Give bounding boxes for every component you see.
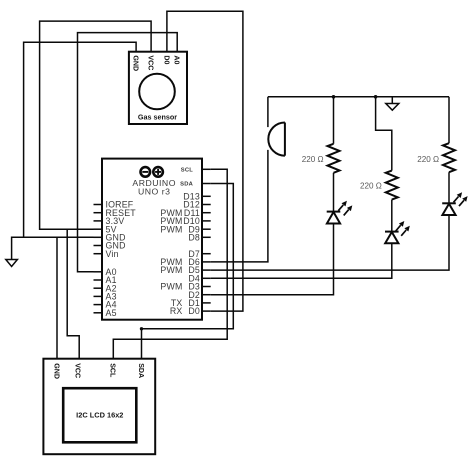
wire: LCD GND up to GND net bbox=[56, 237, 58, 358]
resistor R1 bbox=[328, 144, 340, 173]
resistor R3 bbox=[443, 143, 455, 172]
wire: ground bus bbox=[268, 96, 449, 98]
Arduino logo bbox=[141, 167, 163, 177]
svg-text:Vin: Vin bbox=[106, 249, 119, 259]
wire: Arduino SDA to LCD SDA bbox=[142, 184, 234, 359]
junction dot SDA bend bbox=[140, 327, 143, 330]
svg-text:A5: A5 bbox=[106, 308, 117, 318]
svg-text:RX: RX bbox=[170, 306, 183, 316]
gas sensor module bbox=[129, 52, 187, 124]
ground arrow symbol on bus bbox=[386, 97, 399, 110]
junction dot bus/R2 bbox=[374, 95, 378, 99]
wire: GND net from Arduino GND to ground symbol bbox=[12, 237, 94, 259]
buzzer PZ1 bbox=[268, 123, 285, 156]
wire: R2 to LED2 bbox=[391, 200, 393, 232]
wire: R1 to LED1 bbox=[333, 173, 335, 212]
wire: LED3 to Arduino D5 bbox=[211, 215, 449, 270]
svg-text:SDA: SDA bbox=[137, 363, 145, 378]
svg-text:Gas sensor: Gas sensor bbox=[138, 113, 177, 122]
resistor R2 bbox=[386, 171, 398, 200]
wire: LCD VCC up to 5V net bbox=[67, 229, 79, 359]
svg-text:SCL: SCL bbox=[181, 168, 193, 174]
svg-text:GND: GND bbox=[52, 363, 60, 379]
wire: bus drop to resistor R1 bbox=[333, 97, 335, 144]
svg-text:GND: GND bbox=[132, 55, 140, 71]
wire: bus right end down to resistor R3 bbox=[448, 97, 450, 143]
svg-text:PWM: PWM bbox=[160, 224, 182, 234]
svg-text:PWM: PWM bbox=[160, 265, 182, 275]
wire: LED1 to Arduino D2 bbox=[211, 224, 334, 295]
svg-text:D8: D8 bbox=[188, 232, 200, 242]
wire: bus jog down to resistor R2 bbox=[376, 97, 392, 171]
wire: Arduino SCL to LCD SCL bbox=[113, 169, 227, 358]
ground symbol GND1 bbox=[6, 260, 18, 267]
LED D3 (LED3) bbox=[442, 192, 467, 215]
junction dot bus/R1 bbox=[332, 95, 336, 99]
svg-text:I2C LCD 16x2: I2C LCD 16x2 bbox=[76, 410, 123, 419]
svg-text:D0: D0 bbox=[162, 55, 170, 64]
svg-text:D0: D0 bbox=[188, 306, 200, 316]
svg-text:SCL: SCL bbox=[109, 363, 117, 378]
svg-text:PWM: PWM bbox=[160, 282, 182, 292]
wire: gas sensor GND up-left-down to GND net bbox=[24, 42, 137, 237]
wire: Arduino D6 to buzzer bottom bbox=[211, 150, 268, 262]
svg-text:220 Ω: 220 Ω bbox=[302, 155, 324, 164]
svg-text:VCC: VCC bbox=[74, 363, 82, 378]
I2C LCD 16x2 module bbox=[43, 359, 155, 455]
Arduino UNO U1 body bbox=[102, 159, 202, 320]
LED D1 (LED1) bbox=[327, 201, 353, 224]
wire: buzzer top to ground bus bbox=[267, 97, 269, 127]
Arduino left pin labels bbox=[106, 200, 137, 318]
Arduino right pin stubs bbox=[202, 169, 211, 311]
LED D2 (LED2) bbox=[385, 221, 410, 243]
Arduino left pin stubs bbox=[94, 205, 103, 313]
wire: LED2 to Arduino D4 bbox=[211, 243, 392, 278]
svg-text:SDA: SDA bbox=[180, 182, 193, 188]
wire: gas sensor VCC up-left-down to Arduino 5V bbox=[40, 21, 152, 229]
svg-text:220 Ω: 220 Ω bbox=[360, 182, 382, 191]
svg-text:A0: A0 bbox=[173, 55, 181, 64]
svg-text:220 Ω: 220 Ω bbox=[417, 155, 439, 164]
Arduino right pin labels bbox=[180, 168, 200, 317]
wire: gas sensor D0 up-right-down to Arduino D0 bbox=[167, 11, 243, 311]
Arduino PWM / TX RX labels bbox=[160, 208, 182, 316]
svg-text:VCC: VCC bbox=[147, 55, 155, 70]
wire: gas sensor A0 up-left-down to Arduino A0 bbox=[78, 33, 178, 272]
svg-text:UNO r3: UNO r3 bbox=[138, 186, 170, 196]
wire: R3 to LED3 bbox=[448, 172, 450, 203]
